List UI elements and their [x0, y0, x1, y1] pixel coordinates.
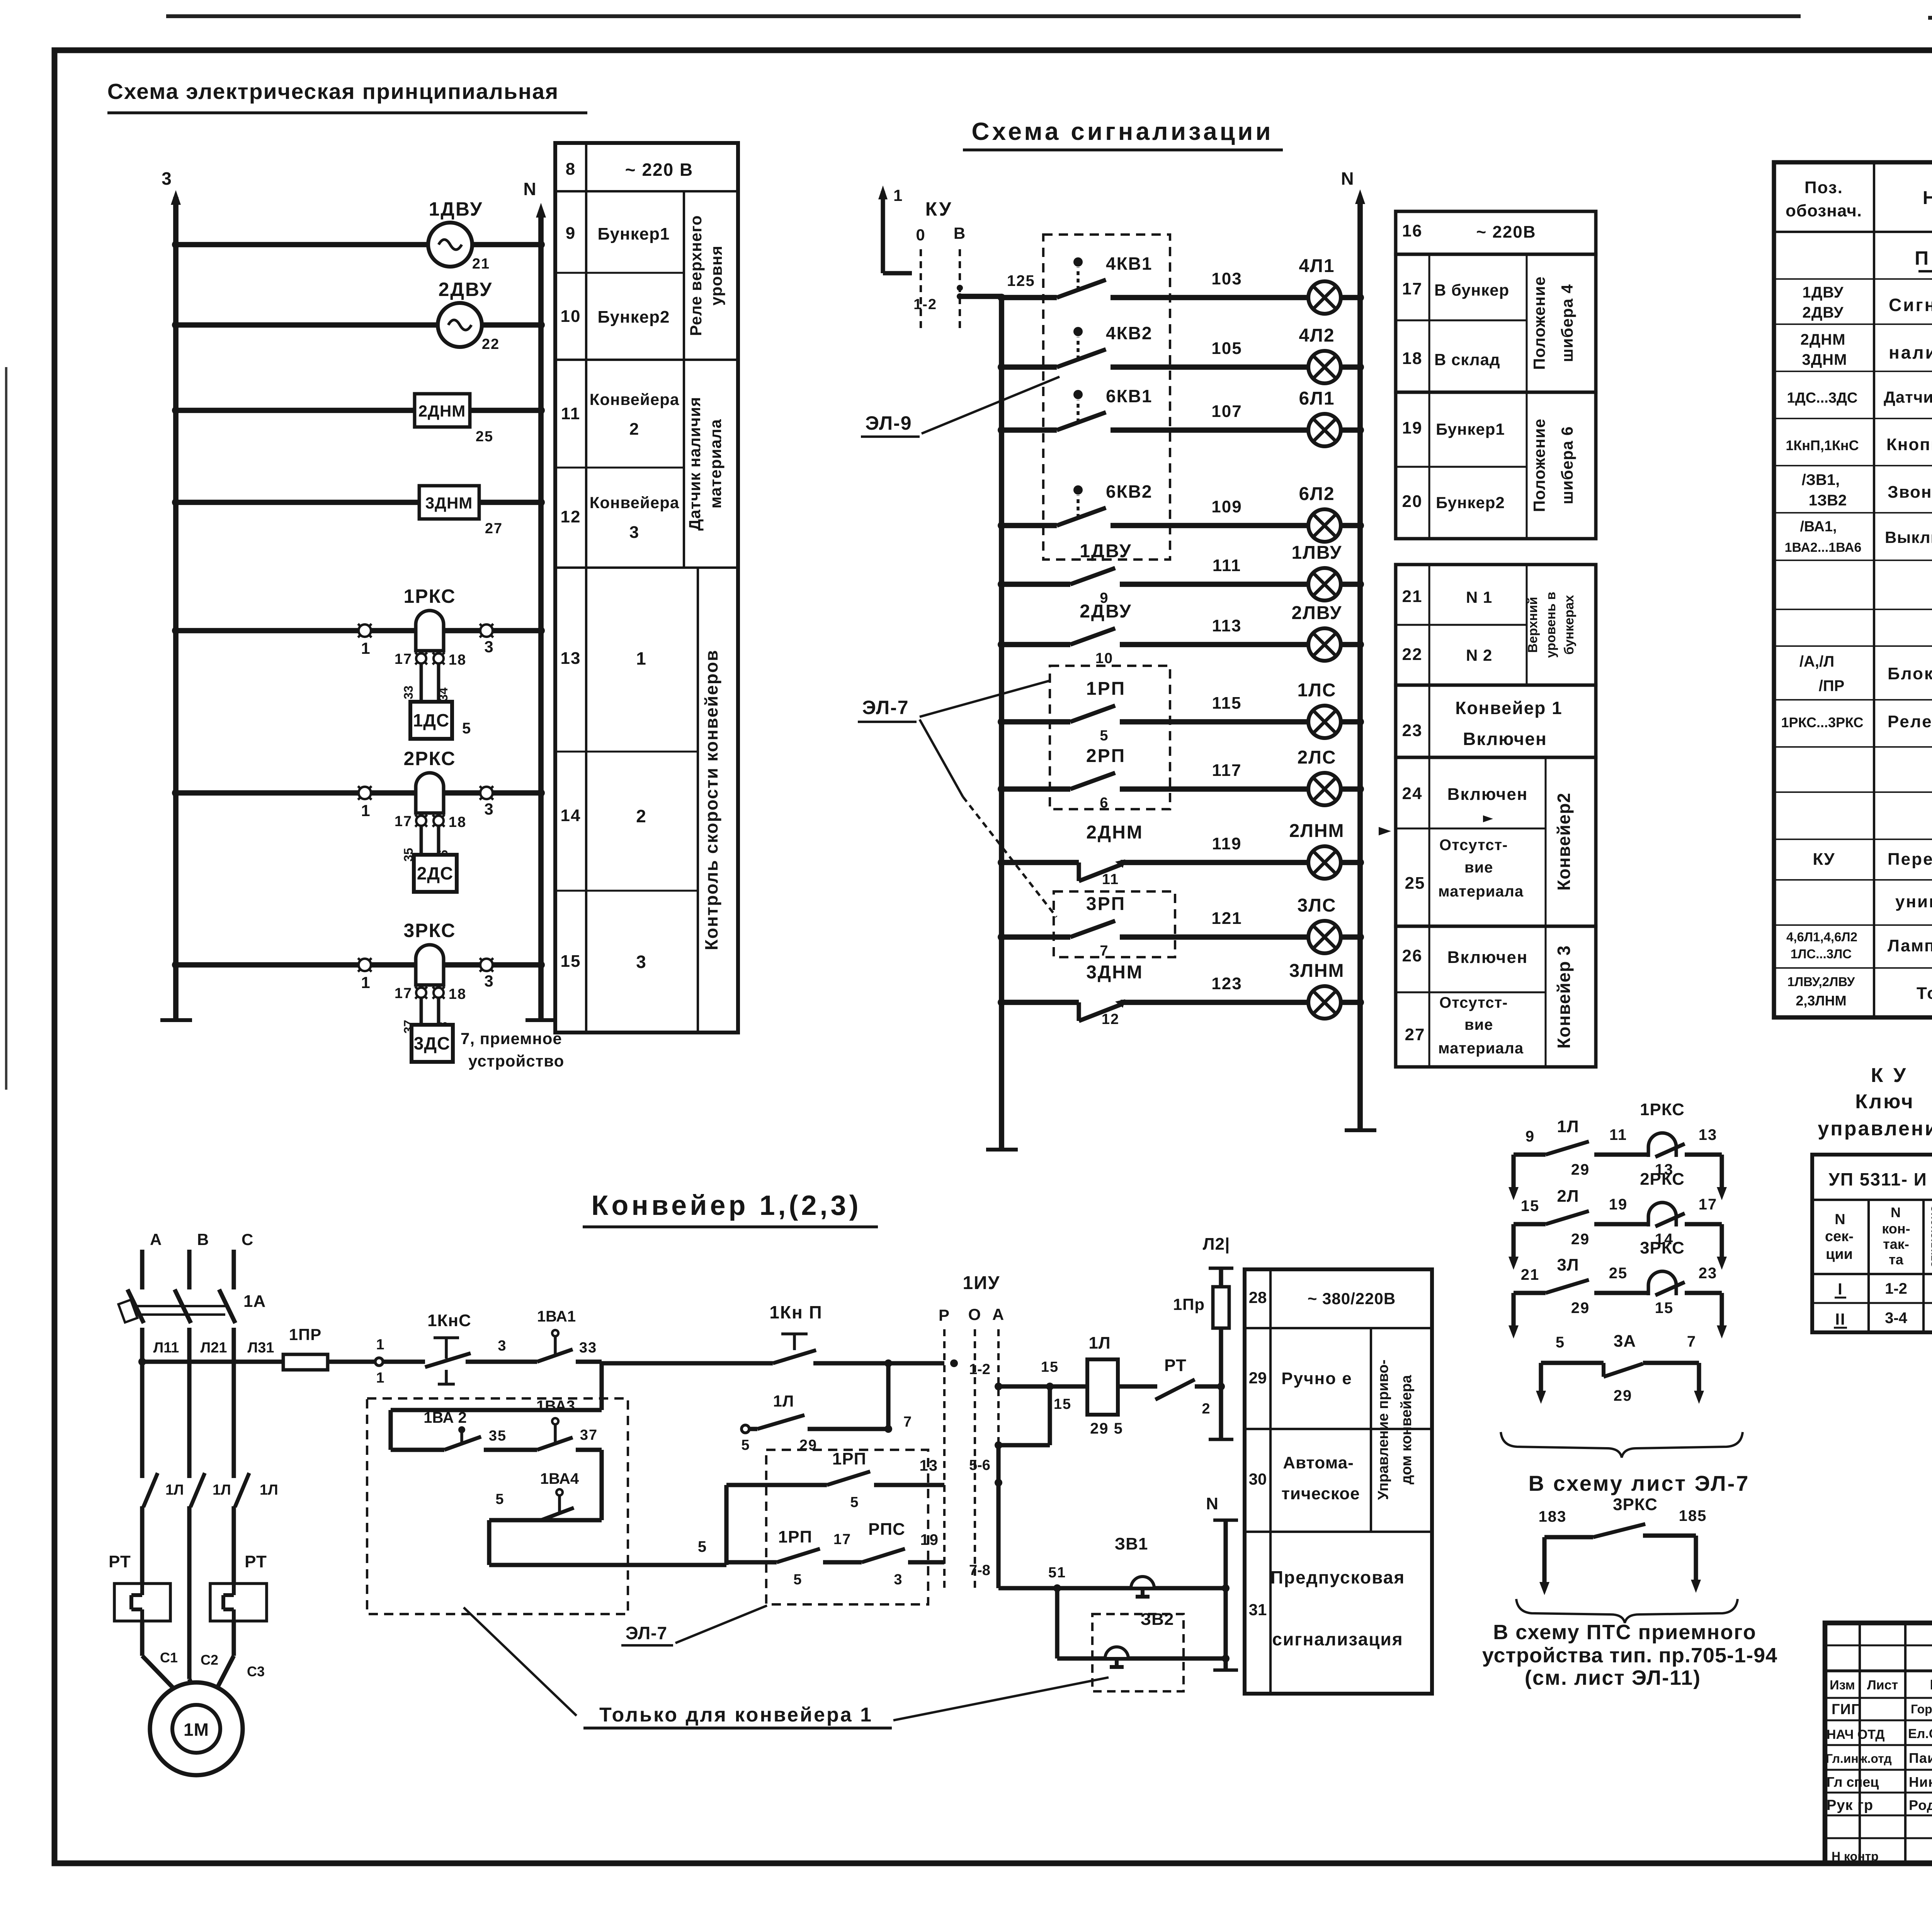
svg-text:13: 13: [920, 1457, 939, 1474]
svg-text:10: 10: [561, 307, 581, 326]
svg-text:материала: материала: [1438, 1040, 1524, 1057]
svg-text:1Л: 1Л: [260, 1482, 278, 1498]
svg-text:3: 3: [484, 800, 494, 818]
svg-text:14: 14: [561, 806, 581, 825]
svg-text:185: 185: [1679, 1507, 1707, 1524]
svg-text:К У: К У: [1871, 1064, 1908, 1087]
svg-text:1ЛС...3ЛС: 1ЛС...3ЛС: [1791, 947, 1852, 961]
svg-text:4Л1: 4Л1: [1299, 256, 1335, 276]
svg-text:1РКС: 1РКС: [1640, 1100, 1685, 1119]
svg-text:111: 111: [1213, 556, 1242, 575]
svg-text:О: О: [968, 1305, 982, 1323]
svg-text:Отсутст-: Отсутст-: [1439, 994, 1508, 1011]
svg-text:По месту: По месту: [1915, 247, 1932, 269]
svg-text:19: 19: [1402, 418, 1423, 437]
svg-text:5: 5: [698, 1538, 707, 1555]
svg-text:Л2|: Л2|: [1203, 1235, 1230, 1254]
svg-text:25: 25: [1405, 874, 1425, 893]
svg-text:25: 25: [476, 429, 493, 445]
svg-text:1РП: 1РП: [832, 1449, 866, 1468]
svg-text:1ВА 2: 1ВА 2: [423, 1409, 466, 1426]
svg-text:13: 13: [1699, 1126, 1718, 1143]
svg-text:33: 33: [579, 1340, 597, 1356]
svg-text:1ВА4: 1ВА4: [540, 1470, 579, 1487]
svg-text:Выключатель конечный: Выключатель конечный: [1885, 528, 1932, 546]
svg-text:~ 220В: ~ 220В: [1476, 223, 1536, 242]
svg-text:2РП: 2РП: [1086, 746, 1126, 766]
svg-text:Предпусковая: Предпусковая: [1270, 1567, 1405, 1587]
svg-text:7: 7: [1687, 1333, 1696, 1350]
svg-text:11: 11: [1609, 1126, 1627, 1143]
svg-text:Только для конвейера 1: Только для конвейера 1: [599, 1704, 873, 1726]
svg-text:шибера 6: шибера 6: [1558, 426, 1576, 504]
svg-text:125: 125: [1007, 272, 1035, 289]
svg-text:В бункер: В бункер: [1434, 281, 1509, 299]
svg-text:N 2: N 2: [1466, 646, 1492, 664]
svg-text:2ЛВУ: 2ЛВУ: [1291, 603, 1342, 623]
svg-text:4,6Л1,4,6Л2: 4,6Л1,4,6Л2: [1786, 930, 1857, 944]
svg-text:29 5: 29 5: [1090, 1420, 1123, 1437]
svg-text:20: 20: [1402, 492, 1423, 511]
svg-text:/ПР: /ПР: [1819, 677, 1845, 694]
svg-text:КУ: КУ: [1813, 850, 1835, 869]
svg-text:3ЛНМ: 3ЛНМ: [1289, 961, 1344, 981]
svg-text:113: 113: [1212, 616, 1242, 635]
svg-text:29: 29: [799, 1437, 817, 1453]
svg-text:Управление приво-: Управление приво-: [1375, 1359, 1391, 1500]
svg-text:сигнализация: сигнализация: [1272, 1629, 1403, 1649]
svg-text:22: 22: [1402, 645, 1423, 664]
svg-text:1Л: 1Л: [1088, 1334, 1111, 1352]
svg-text:123: 123: [1211, 974, 1242, 993]
svg-text:3РП: 3РП: [1086, 894, 1126, 914]
svg-text:1РП: 1РП: [1086, 679, 1126, 699]
svg-text:15: 15: [1041, 1359, 1059, 1375]
svg-text:ЗВ1: ЗВ1: [1115, 1534, 1148, 1553]
svg-text:/ВА1,: /ВА1,: [1800, 519, 1837, 535]
svg-text:3ДС: 3ДС: [414, 1033, 451, 1053]
svg-text:1ИУ: 1ИУ: [963, 1273, 1000, 1293]
svg-text:37: 37: [580, 1427, 598, 1443]
svg-text:28: 28: [1249, 1288, 1267, 1306]
svg-text:кон-: кон-: [1882, 1221, 1910, 1237]
svg-text:24: 24: [1402, 784, 1423, 803]
svg-text:19: 19: [1609, 1196, 1628, 1213]
svg-text:183: 183: [1539, 1508, 1567, 1525]
svg-text:Рук гр: Рук гр: [1827, 1797, 1873, 1813]
svg-text:3: 3: [636, 952, 647, 972]
svg-text:23: 23: [1402, 721, 1423, 740]
svg-text:18: 18: [449, 652, 466, 668]
svg-text:2ЛС: 2ЛС: [1297, 747, 1336, 768]
svg-text:1Л: 1Л: [1557, 1117, 1579, 1136]
svg-text:1РКС...3РКС: 1РКС...3РКС: [1781, 714, 1863, 730]
svg-text:Кнопка управления: Кнопка управления: [1886, 435, 1932, 454]
svg-text:2ДНМ: 2ДНМ: [1086, 822, 1143, 843]
svg-text:Гл.инж.отд: Гл.инж.отд: [1826, 1752, 1892, 1766]
svg-text:Бункер2: Бункер2: [598, 308, 670, 327]
svg-text:Бункер1: Бункер1: [598, 225, 670, 243]
svg-text:Отсутст-: Отсутст-: [1439, 837, 1508, 854]
svg-text:27: 27: [485, 520, 503, 537]
svg-text:Наименование: Наименование: [1923, 188, 1932, 208]
svg-text:Датчик реле скорости: Датчик реле скорости: [1884, 388, 1932, 406]
svg-text:7, приемное: 7, приемное: [461, 1029, 562, 1048]
svg-text:N: N: [1835, 1211, 1846, 1228]
svg-text:1ЛС: 1ЛС: [1297, 680, 1336, 701]
svg-text:Л11: Л11: [153, 1340, 179, 1356]
svg-text:РТ: РТ: [109, 1552, 131, 1571]
svg-text:N: N: [1206, 1494, 1219, 1513]
svg-text:29: 29: [1614, 1387, 1633, 1404]
svg-text:Бункер1: Бункер1: [1436, 420, 1505, 438]
svg-text:1: 1: [361, 639, 371, 657]
svg-text:2: 2: [629, 420, 639, 439]
svg-text:Бункер2: Бункер2: [1436, 493, 1505, 512]
svg-text:3: 3: [484, 972, 494, 990]
svg-text:15: 15: [1054, 1396, 1071, 1412]
svg-text:3: 3: [498, 1338, 507, 1354]
svg-text:5: 5: [741, 1437, 750, 1453]
svg-text:1М: 1М: [184, 1720, 209, 1740]
svg-text:17: 17: [1402, 279, 1423, 298]
svg-text:9: 9: [1526, 1128, 1535, 1145]
svg-text:Датчик наличия: Датчик наличия: [685, 397, 704, 531]
svg-text:управления: управления: [1818, 1118, 1932, 1140]
svg-text:В: В: [197, 1230, 209, 1249]
svg-text:12: 12: [561, 507, 581, 526]
svg-text:шибера 4: шибера 4: [1558, 284, 1576, 362]
svg-text:~ 380/220В: ~ 380/220В: [1308, 1289, 1396, 1308]
svg-text:2ДНМ: 2ДНМ: [418, 402, 466, 420]
svg-text:ЭЛ-7: ЭЛ-7: [626, 1623, 667, 1643]
svg-text:устройство: устройство: [468, 1052, 564, 1070]
svg-text:2ДВУ: 2ДВУ: [1803, 304, 1844, 321]
svg-text:N: N: [523, 179, 537, 199]
svg-text:N докум: N докум: [1930, 1677, 1932, 1692]
svg-text:3: 3: [162, 168, 172, 189]
svg-text:15: 15: [1521, 1197, 1540, 1214]
svg-text:3РКС: 3РКС: [1613, 1495, 1658, 1514]
svg-text:1: 1: [636, 648, 647, 668]
svg-text:1КнП,1КнС: 1КнП,1КнС: [1786, 437, 1859, 453]
svg-text:Ручно е: Ручно е: [1281, 1369, 1352, 1388]
svg-text:17: 17: [395, 651, 412, 667]
svg-text:уровень в: уровень в: [1544, 592, 1558, 658]
svg-text:1ВА2...1ВА6: 1ВА2...1ВА6: [1785, 540, 1862, 555]
svg-text:вие: вие: [1464, 1016, 1493, 1033]
svg-text:29: 29: [1249, 1369, 1267, 1387]
svg-text:4Л2: 4Л2: [1299, 325, 1335, 346]
svg-text:3: 3: [484, 638, 494, 656]
svg-text:21: 21: [1521, 1266, 1540, 1283]
svg-text:8: 8: [566, 160, 576, 179]
svg-text:26: 26: [1402, 946, 1423, 965]
svg-text:/А,/Л: /А,/Л: [1799, 653, 1834, 670]
svg-text:Включен: Включен: [1463, 729, 1547, 749]
svg-text:РПС: РПС: [868, 1520, 905, 1539]
svg-text:1Л: 1Л: [165, 1482, 184, 1498]
svg-text:Сигнализатор: Сигнализатор: [1889, 295, 1932, 315]
svg-text:5: 5: [793, 1572, 802, 1588]
svg-text:отключено: отключено: [1927, 1205, 1932, 1268]
svg-text:ЭЛ-9: ЭЛ-9: [865, 412, 912, 434]
svg-text:N 1: N 1: [1466, 588, 1492, 606]
svg-text:2,3ЛНМ: 2,3ЛНМ: [1796, 993, 1846, 1009]
svg-text:1-2: 1-2: [913, 296, 937, 313]
svg-text:Блок управления: Блок управления: [1888, 664, 1932, 683]
svg-text:II: II: [1835, 1310, 1845, 1328]
svg-text:С: С: [241, 1230, 254, 1249]
svg-text:1РКС: 1РКС: [403, 585, 456, 607]
svg-text:1: 1: [376, 1370, 385, 1386]
svg-text:В: В: [954, 224, 966, 242]
svg-text:103: 103: [1211, 269, 1242, 288]
svg-text:1ЛВУ,2ЛВУ: 1ЛВУ,2ЛВУ: [1787, 975, 1855, 989]
svg-text:3: 3: [629, 523, 639, 542]
svg-text:В схему лист ЭЛ-7: В схему лист ЭЛ-7: [1529, 1471, 1750, 1495]
svg-text:0: 0: [916, 226, 925, 244]
svg-text:1-2: 1-2: [969, 1361, 990, 1378]
svg-text:1ЛВУ: 1ЛВУ: [1291, 543, 1342, 563]
svg-text:Переключатель: Переключатель: [1888, 850, 1932, 869]
svg-text:Л21: Л21: [201, 1340, 227, 1356]
svg-text:Реле скорости: Реле скорости: [1888, 712, 1932, 731]
svg-text:4КВ1: 4КВ1: [1106, 253, 1152, 274]
svg-text:10: 10: [1095, 650, 1113, 667]
svg-text:1ДВУ: 1ДВУ: [429, 198, 483, 220]
svg-text:1: 1: [361, 973, 371, 992]
svg-text:Гл спец: Гл спец: [1827, 1774, 1879, 1790]
svg-text:I: I: [1838, 1280, 1843, 1298]
svg-text:2: 2: [1202, 1401, 1211, 1417]
svg-text:дом конвейера: дом конвейера: [1398, 1375, 1415, 1485]
svg-text:6Л2: 6Л2: [1299, 484, 1335, 504]
svg-text:Ел.Стратьев: Ел.Стратьев: [1908, 1726, 1932, 1741]
svg-text:16: 16: [1402, 221, 1423, 240]
svg-text:13: 13: [561, 649, 581, 668]
svg-text:3ДНМ: 3ДНМ: [425, 494, 473, 512]
svg-text:Положение: Положение: [1530, 418, 1548, 512]
svg-text:С2: С2: [201, 1652, 218, 1668]
svg-text:6КВ2: 6КВ2: [1106, 481, 1152, 502]
svg-text:18: 18: [449, 986, 466, 1002]
svg-text:3ДНМ: 3ДНМ: [1802, 351, 1847, 368]
svg-text:1Пр: 1Пр: [1173, 1295, 1205, 1313]
svg-text:15: 15: [1655, 1300, 1674, 1317]
svg-text:1: 1: [893, 186, 903, 204]
svg-text:2ДВУ: 2ДВУ: [1080, 601, 1132, 622]
svg-text:30: 30: [1249, 1470, 1267, 1488]
svg-text:9: 9: [566, 224, 576, 243]
svg-text:3-4: 3-4: [1885, 1310, 1908, 1327]
svg-text:18: 18: [449, 814, 466, 830]
svg-text:тическое: тическое: [1281, 1484, 1360, 1503]
svg-text:Н контр: Н контр: [1832, 1849, 1879, 1863]
svg-text:1Кн П: 1Кн П: [769, 1302, 822, 1322]
svg-text:РТ: РТ: [1164, 1356, 1187, 1375]
svg-text:Автома-: Автома-: [1283, 1453, 1354, 1472]
svg-text:3ДНМ: 3ДНМ: [1086, 962, 1143, 983]
svg-text:С1: С1: [160, 1650, 178, 1665]
svg-text:УП 5311- И 25: УП 5311- И 25: [1828, 1169, 1932, 1189]
svg-text:Лист: Лист: [1867, 1678, 1898, 1692]
svg-text:та: та: [1889, 1252, 1904, 1267]
svg-text:1РП: 1РП: [778, 1527, 812, 1546]
svg-text:5: 5: [495, 1491, 504, 1507]
svg-text:3: 3: [894, 1572, 903, 1588]
svg-text:12: 12: [1102, 1011, 1119, 1027]
svg-text:Л31: Л31: [248, 1340, 274, 1356]
svg-text:ции: ции: [1826, 1246, 1853, 1262]
svg-text:109: 109: [1211, 497, 1242, 516]
svg-text:107: 107: [1211, 402, 1242, 421]
svg-text:Конвейер 3: Конвейер 3: [1554, 945, 1574, 1049]
svg-text:1ВА1: 1ВА1: [537, 1308, 576, 1325]
svg-text:РТ: РТ: [245, 1552, 267, 1571]
svg-text:В схему ПТС приемного: В схему ПТС приемного: [1493, 1621, 1757, 1644]
svg-text:так-: так-: [1883, 1236, 1909, 1252]
svg-text:(см. лист ЭЛ-11): (см. лист ЭЛ-11): [1525, 1666, 1701, 1689]
svg-text:наличия руды: наличия руды: [1889, 342, 1932, 362]
svg-text:Горелов: Горелов: [1911, 1702, 1932, 1716]
svg-text:1Л: 1Л: [213, 1482, 231, 1498]
svg-text:Конвейера: Конвейера: [590, 390, 679, 408]
svg-text:33: 33: [401, 685, 415, 699]
svg-text:Схема электрическая принципиал: Схема электрическая принципиальная: [107, 79, 559, 104]
svg-text:23: 23: [1699, 1265, 1718, 1282]
svg-text:11: 11: [1102, 871, 1119, 888]
svg-text:1ВА3: 1ВА3: [536, 1398, 575, 1415]
svg-text:34: 34: [436, 687, 450, 701]
svg-text:НАЧ ОТД: НАЧ ОТД: [1827, 1727, 1884, 1742]
svg-text:5: 5: [1556, 1334, 1565, 1351]
svg-text:6Л1: 6Л1: [1299, 388, 1335, 409]
svg-text:5-6: 5-6: [969, 1457, 990, 1473]
svg-text:Конвейер2: Конвейер2: [1554, 793, 1574, 891]
svg-text:5: 5: [850, 1494, 859, 1510]
svg-text:обознач.: обознач.: [1786, 201, 1862, 220]
svg-text:ГИП: ГИП: [1832, 1701, 1862, 1718]
svg-text:27: 27: [1405, 1025, 1425, 1044]
svg-text:51: 51: [1048, 1565, 1066, 1581]
svg-text:5: 5: [462, 720, 471, 737]
svg-text:/ЗВ1,: /ЗВ1,: [1802, 471, 1840, 488]
svg-text:В склад: В склад: [1434, 350, 1500, 369]
svg-text:5: 5: [1100, 728, 1109, 744]
svg-text:Включен: Включен: [1447, 948, 1528, 967]
svg-text:1ДВУ: 1ДВУ: [1803, 284, 1844, 301]
svg-text:2: 2: [636, 806, 647, 826]
svg-text:КУ: КУ: [925, 198, 953, 220]
svg-text:1ДС...3ДС: 1ДС...3ДС: [1787, 390, 1858, 406]
svg-text:Верхний: Верхний: [1526, 597, 1540, 653]
svg-text:Родионова: Родионова: [1909, 1797, 1932, 1813]
svg-text:18: 18: [1402, 349, 1423, 368]
svg-text:105: 105: [1211, 339, 1242, 358]
svg-text:Схема сигнализации: Схема сигнализации: [971, 117, 1273, 145]
svg-text:2ДНМ: 2ДНМ: [1801, 331, 1846, 348]
svg-text:3Л: 3Л: [1557, 1255, 1579, 1274]
svg-text:17: 17: [1699, 1196, 1718, 1213]
svg-text:устройства тип. пр.705-1-94: устройства тип. пр.705-1-94: [1482, 1644, 1777, 1667]
svg-text:7-8: 7-8: [969, 1562, 990, 1579]
svg-text:15: 15: [561, 952, 581, 971]
svg-text:11: 11: [561, 404, 581, 423]
svg-text:115: 115: [1212, 694, 1242, 713]
svg-text:Поз.: Поз.: [1804, 178, 1843, 197]
svg-text:21: 21: [472, 256, 490, 272]
svg-text:N: N: [1891, 1204, 1901, 1220]
svg-text:4КВ2: 4КВ2: [1106, 323, 1152, 343]
svg-text:ЗВ2: ЗВ2: [1141, 1610, 1174, 1629]
svg-text:3А: 3А: [1614, 1332, 1636, 1351]
svg-text:N: N: [1341, 168, 1354, 189]
svg-text:материала: материала: [706, 419, 724, 509]
svg-text:Положение: Положение: [1530, 276, 1548, 370]
svg-text:Р: Р: [939, 1306, 950, 1324]
svg-text:Никитин: Никитин: [1909, 1774, 1932, 1790]
svg-text:31: 31: [1249, 1601, 1267, 1619]
svg-text:17: 17: [395, 813, 412, 830]
svg-text:Звонок громкого боя: Звонок громкого боя: [1888, 483, 1932, 502]
svg-text:Конвейера: Конвейера: [590, 493, 679, 512]
svg-text:3ЛС: 3ЛС: [1297, 895, 1336, 916]
svg-text:уровня: уровня: [707, 245, 725, 306]
svg-text:вие: вие: [1464, 859, 1493, 876]
svg-text:С3: С3: [247, 1664, 265, 1679]
svg-text:А: А: [150, 1230, 162, 1249]
svg-text:17: 17: [395, 985, 412, 1002]
svg-text:25: 25: [1609, 1265, 1628, 1282]
svg-text:3РКС: 3РКС: [403, 920, 456, 941]
svg-text:Лампа сигнальная: Лампа сигнальная: [1888, 936, 1932, 955]
svg-text:35: 35: [489, 1428, 507, 1444]
svg-text:6КВ1: 6КВ1: [1106, 386, 1152, 406]
svg-text:ЭЛ-7: ЭЛ-7: [862, 697, 909, 718]
svg-text:29: 29: [1571, 1161, 1590, 1178]
svg-text:1: 1: [376, 1337, 385, 1353]
svg-text:7: 7: [903, 1414, 912, 1430]
svg-text:2ДВУ: 2ДВУ: [439, 279, 493, 300]
svg-text:Конвейер 1,(2,3): Конвейер 1,(2,3): [591, 1190, 861, 1221]
svg-text:121: 121: [1211, 909, 1242, 928]
svg-text:Реле верхнего: Реле верхнего: [687, 215, 705, 336]
svg-text:То же: То же: [1917, 984, 1932, 1003]
svg-text:Ключ: Ключ: [1855, 1090, 1914, 1113]
svg-text:2ДС: 2ДС: [417, 863, 454, 883]
svg-text:Конвейер 1: Конвейер 1: [1455, 698, 1563, 718]
svg-text:1ЗВ2: 1ЗВ2: [1809, 492, 1847, 509]
svg-text:21: 21: [1402, 587, 1423, 606]
svg-text:22: 22: [482, 336, 500, 352]
svg-text:1А: 1А: [243, 1292, 266, 1311]
svg-text:бункерах: бункерах: [1562, 595, 1577, 655]
svg-text:2РКС: 2РКС: [403, 748, 456, 769]
svg-text:Паикин: Паикин: [1909, 1750, 1932, 1766]
svg-text:3РКС: 3РКС: [1640, 1238, 1685, 1257]
svg-text:1КнС: 1КнС: [427, 1311, 471, 1330]
svg-text:19: 19: [920, 1531, 939, 1548]
svg-text:119: 119: [1212, 834, 1242, 853]
svg-text:29: 29: [1571, 1231, 1590, 1248]
svg-text:1ПР: 1ПР: [289, 1325, 322, 1344]
svg-text:29: 29: [1571, 1300, 1590, 1317]
svg-text:1ДС: 1ДС: [413, 710, 450, 730]
svg-text:Контроль скорости конвейеров: Контроль скорости конвейеров: [701, 650, 721, 951]
svg-text:~ 220 В: ~ 220 В: [625, 160, 693, 180]
svg-text:А: А: [992, 1305, 1005, 1323]
